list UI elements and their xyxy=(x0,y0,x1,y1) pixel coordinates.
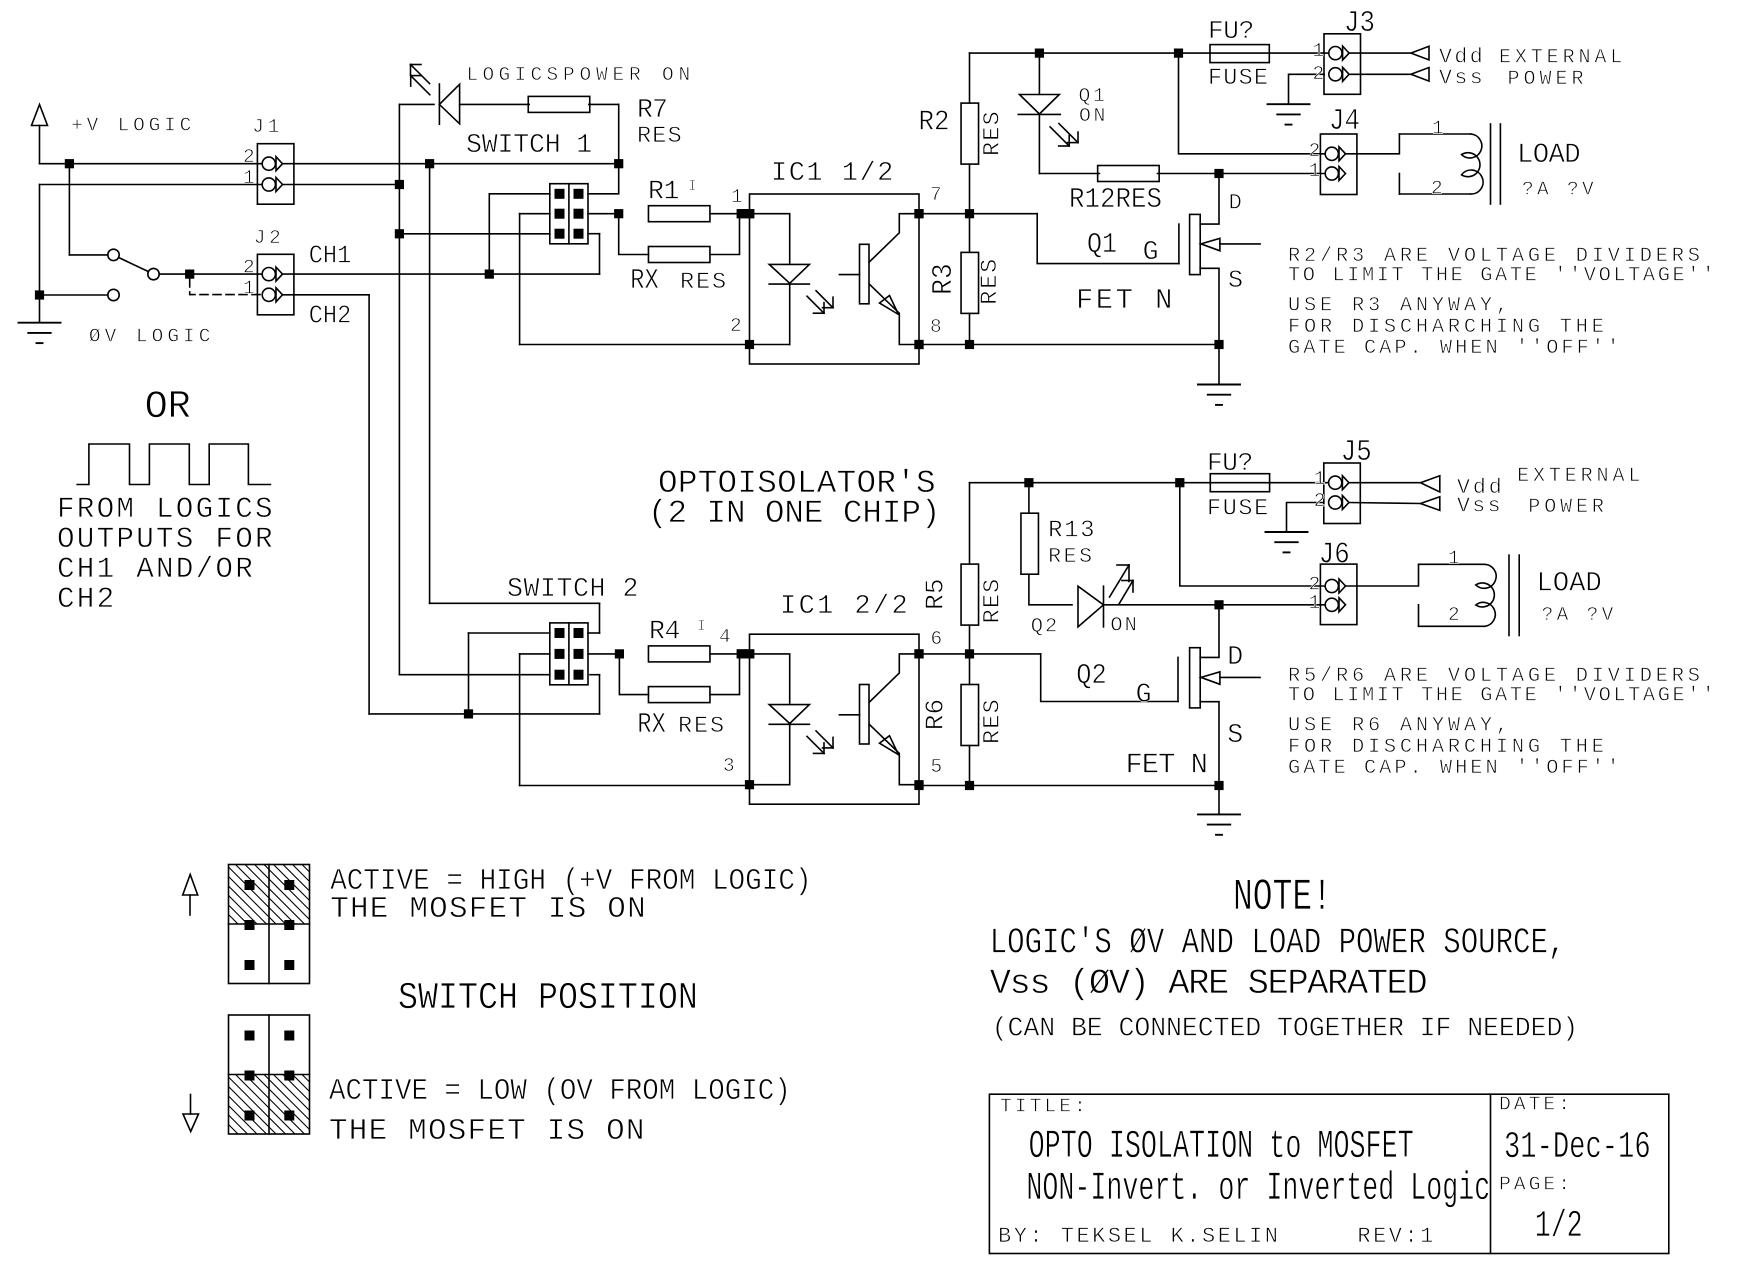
svg-text:SWITCH POSITION: SWITCH POSITION xyxy=(398,976,698,1020)
svg-text:OPTO ISOLATION to MOSFET: OPTO ISOLATION to MOSFET xyxy=(1029,1125,1414,1169)
svg-text:CH1 AND/OR: CH1 AND/OR xyxy=(57,553,255,586)
svg-text:RES: RES xyxy=(1048,545,1094,569)
svg-text:ACTIVE = LOW (OV FROM LOGIC): ACTIVE = LOW (OV FROM LOGIC) xyxy=(329,1074,791,1109)
svg-text:FUSE: FUSE xyxy=(1208,65,1269,92)
svg-text:RES: RES xyxy=(977,257,1004,305)
svg-text:USE R6 ANYWAY,: USE R6 ANYWAY, xyxy=(1288,715,1512,738)
svg-text:R6: R6 xyxy=(920,699,950,731)
svg-text:USE R3 ANYWAY,: USE R3 ANYWAY, xyxy=(1288,295,1512,318)
svg-text:D: D xyxy=(1227,642,1242,672)
svg-text:3: 3 xyxy=(723,755,739,777)
svg-text:RX: RX xyxy=(637,708,666,741)
svg-text:1: 1 xyxy=(1313,40,1329,62)
svg-text:IC1 2/2: IC1 2/2 xyxy=(780,592,910,622)
svg-text:1: 1 xyxy=(1448,547,1464,569)
svg-text:Vss: Vss xyxy=(1439,67,1485,91)
svg-text:I: I xyxy=(697,619,709,635)
svg-text:EXTERNAL: EXTERNAL xyxy=(1517,465,1644,488)
svg-text:FU?: FU? xyxy=(1208,16,1254,46)
svg-text:R5: R5 xyxy=(920,578,950,610)
svg-text:NOTE!: NOTE! xyxy=(1233,873,1332,923)
svg-text:TITLE:: TITLE: xyxy=(1000,1096,1089,1118)
svg-text:R7: R7 xyxy=(637,95,667,125)
svg-text:1: 1 xyxy=(1432,118,1448,140)
svg-text:S: S xyxy=(1228,266,1243,295)
svg-text:DATE:: DATE: xyxy=(1499,1094,1573,1116)
svg-text:Vss: Vss xyxy=(1457,495,1503,519)
svg-text:RES: RES xyxy=(637,123,683,150)
svg-text:Q1: Q1 xyxy=(1087,230,1117,262)
svg-text:2: 2 xyxy=(243,257,259,279)
svg-text:EXTERNAL: EXTERNAL xyxy=(1499,47,1626,70)
svg-text:POWER: POWER xyxy=(1508,68,1588,91)
svg-text:J6: J6 xyxy=(1319,539,1350,572)
svg-text:1: 1 xyxy=(243,278,259,300)
svg-text:1: 1 xyxy=(731,186,747,208)
svg-text:S: S xyxy=(1227,720,1242,750)
svg-text:FROM LOGICS: FROM LOGICS xyxy=(57,493,275,526)
svg-text:CH1: CH1 xyxy=(309,242,352,271)
svg-text:BY: TEKSEL K.SELIN: BY: TEKSEL K.SELIN xyxy=(998,1224,1280,1249)
svg-text:LOAD: LOAD xyxy=(1517,140,1580,171)
svg-text:OUTPUTS FOR: OUTPUTS FOR xyxy=(57,523,275,556)
svg-text:J2: J2 xyxy=(254,227,285,249)
svg-text:RES: RES xyxy=(979,698,1006,744)
svg-text:PAGE:: PAGE: xyxy=(1499,1174,1573,1196)
svg-text:IC1 1/2: IC1 1/2 xyxy=(771,159,895,189)
svg-text:LOGICS: LOGICS xyxy=(467,64,563,86)
svg-text:4: 4 xyxy=(719,626,735,648)
svg-text:ØV LOGIC: ØV LOGIC xyxy=(89,326,215,348)
svg-text:R12RES: R12RES xyxy=(1069,184,1162,217)
svg-text:?A ?V: ?A ?V xyxy=(1542,604,1617,626)
svg-text:31-Dec-16: 31-Dec-16 xyxy=(1504,1126,1651,1169)
svg-text:RES: RES xyxy=(680,269,728,296)
svg-text:NON-Invert. or Inverted Logic: NON-Invert. or Inverted Logic xyxy=(1026,1167,1490,1212)
svg-text:?A ?V: ?A ?V xyxy=(1522,179,1597,201)
svg-text:CH2: CH2 xyxy=(309,302,352,331)
svg-text:RX: RX xyxy=(630,264,659,297)
svg-text:FET N: FET N xyxy=(1126,749,1207,782)
svg-text:G: G xyxy=(1136,680,1151,710)
svg-text:RES: RES xyxy=(979,110,1006,156)
svg-text:2: 2 xyxy=(1448,604,1464,626)
svg-text:D: D xyxy=(1229,190,1244,215)
svg-text:R1: R1 xyxy=(648,177,679,207)
svg-text:J1: J1 xyxy=(252,116,283,138)
svg-text:Vss (ØV) ARE SEPARATED: Vss (ØV) ARE SEPARATED xyxy=(990,963,1427,1004)
svg-text:POWER: POWER xyxy=(1528,496,1607,519)
svg-text:I: I xyxy=(688,179,700,195)
svg-text:8: 8 xyxy=(930,316,946,338)
svg-text:1: 1 xyxy=(1314,468,1330,490)
svg-text:ON: ON xyxy=(1079,105,1108,127)
svg-text:2: 2 xyxy=(1314,490,1330,512)
svg-text:TO LIMIT THE GATE ''VOLTAGE'': TO LIMIT THE GATE ''VOLTAGE'' xyxy=(1288,684,1717,707)
svg-text:1: 1 xyxy=(1309,160,1325,182)
svg-text:+V LOGIC: +V LOGIC xyxy=(71,114,195,136)
svg-text:GATE CAP. WHEN ''OFF'': GATE CAP. WHEN ''OFF'' xyxy=(1288,757,1622,780)
svg-text:R13: R13 xyxy=(1048,518,1096,545)
svg-text:LOGIC'S ØV AND LOAD POWER SOUR: LOGIC'S ØV AND LOAD POWER SOURCE, xyxy=(990,923,1566,964)
svg-text:SWITCH 2: SWITCH 2 xyxy=(507,574,639,604)
svg-text:2: 2 xyxy=(730,315,746,337)
svg-text:2: 2 xyxy=(1313,63,1329,85)
svg-text:RES: RES xyxy=(979,578,1006,624)
svg-text:FUSE: FUSE xyxy=(1207,496,1270,523)
svg-text:Q1: Q1 xyxy=(1079,85,1108,107)
svg-text:FOR DISCHARCHING THE: FOR DISCHARCHING THE xyxy=(1288,316,1608,339)
svg-text:G: G xyxy=(1143,237,1158,267)
svg-text:GATE CAP. WHEN ''OFF'': GATE CAP. WHEN ''OFF'' xyxy=(1288,337,1622,360)
svg-text:POWER ON: POWER ON xyxy=(563,64,695,86)
svg-text:J3: J3 xyxy=(1344,7,1375,40)
svg-text:2: 2 xyxy=(1309,140,1325,162)
svg-text:Q2: Q2 xyxy=(1031,616,1059,639)
svg-text:(CAN BE CONNECTED TOGETHER IF: (CAN BE CONNECTED TOGETHER IF NEEDED) xyxy=(992,1014,1578,1044)
svg-text:7: 7 xyxy=(930,184,946,206)
svg-text:RES: RES xyxy=(678,713,726,740)
svg-text:1: 1 xyxy=(243,167,259,189)
svg-text:SWITCH 1: SWITCH 1 xyxy=(466,130,592,160)
svg-text:2: 2 xyxy=(1431,178,1447,200)
svg-text:TO LIMIT THE GATE ''VOLTAGE'': TO LIMIT THE GATE ''VOLTAGE'' xyxy=(1288,264,1717,287)
svg-text:1/2: 1/2 xyxy=(1535,1205,1583,1248)
svg-text:FOR DISCHARCHING THE: FOR DISCHARCHING THE xyxy=(1288,736,1608,759)
svg-text:R4: R4 xyxy=(649,617,680,647)
svg-text:THE MOSFET IS ON: THE MOSFET IS ON xyxy=(330,892,647,927)
svg-text:2: 2 xyxy=(243,146,259,168)
svg-text:R2: R2 xyxy=(919,106,950,139)
svg-text:5: 5 xyxy=(931,756,947,778)
svg-text:R3: R3 xyxy=(928,263,961,295)
svg-text:FET N: FET N xyxy=(1076,284,1175,317)
svg-text:1: 1 xyxy=(1309,592,1325,614)
svg-text:THE MOSFET IS ON: THE MOSFET IS ON xyxy=(329,1114,646,1149)
svg-text:J5: J5 xyxy=(1341,436,1372,469)
svg-text:ON: ON xyxy=(1110,615,1138,638)
svg-text:(2 IN ONE CHIP): (2 IN ONE CHIP) xyxy=(648,495,940,532)
svg-text:Q2: Q2 xyxy=(1076,659,1106,692)
svg-text:REV:1: REV:1 xyxy=(1357,1224,1435,1249)
svg-text:J4: J4 xyxy=(1329,105,1360,138)
svg-text:CH2: CH2 xyxy=(57,583,116,616)
svg-text:6: 6 xyxy=(931,628,947,650)
svg-text:FU?: FU? xyxy=(1207,448,1253,478)
svg-text:OR: OR xyxy=(145,385,191,429)
svg-text:LOAD: LOAD xyxy=(1537,569,1602,600)
